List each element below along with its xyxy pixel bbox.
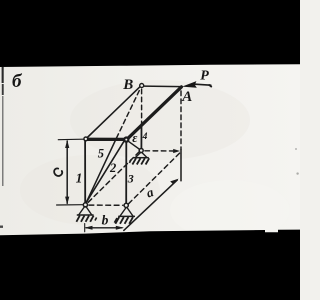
dimension c top arrow	[65, 140, 69, 148]
support at node C	[129, 152, 149, 164]
force P arrowhead	[182, 81, 197, 88]
dimension b tick	[84, 224, 86, 232]
svg-text:5: 5	[98, 147, 104, 161]
right edge specks	[295, 148, 297, 150]
top black bar	[0, 0, 300, 67]
node B	[140, 84, 144, 88]
dashed bottom front edge	[89, 204, 123, 206]
dimension a line	[124, 180, 177, 230]
node bottom-left joint	[83, 203, 87, 207]
dimension a arrowhead	[170, 179, 179, 185]
svg-text:2: 2	[109, 161, 116, 175]
dimension c bottom arrow	[65, 197, 69, 205]
dimension b line	[86, 227, 122, 229]
dashed back-right bottom edge BC to R	[129, 153, 180, 204]
support at bottom-left joint	[76, 206, 96, 222]
dashed rod bottom-left to C	[88, 152, 139, 202]
rod 2 hidden dashed part to B	[117, 89, 141, 138]
small arrow at end of dashed C edge	[173, 149, 180, 153]
rod 2 solid lower part	[86, 138, 116, 203]
member: top-right edge to A (thick)	[126, 87, 181, 140]
dimension c ticks	[58, 138, 83, 141]
dashed back-bottom edge C to R	[145, 150, 176, 152]
node top-left joint	[84, 137, 88, 141]
dimension b left arrow	[84, 226, 92, 230]
dimension c line	[66, 141, 68, 203]
wire: back-top edge B-A	[144, 85, 181, 88]
rod 4	[140, 124, 142, 148]
support at bottom-center joint	[114, 207, 135, 223]
rod from center joint to C	[128, 141, 139, 149]
dashed vertical below B	[141, 89, 143, 124]
svg-text:ε: ε	[132, 131, 138, 145]
svg-text:В: В	[122, 77, 133, 93]
dashed vertical below A	[180, 91, 182, 150]
left page-edge artifact	[2, 67, 4, 83]
label c	[54, 168, 62, 176]
node C joint	[139, 149, 143, 153]
dimension b right arrow	[116, 226, 124, 230]
svg-text:3: 3	[127, 171, 134, 185]
rod 3	[125, 142, 127, 204]
solid extension below corner R	[180, 150, 182, 181]
node top-center joint	[124, 138, 128, 142]
svg-text:1: 1	[76, 171, 83, 186]
svg-text:А: А	[181, 89, 192, 105]
node bottom-center joint	[124, 203, 128, 207]
svg-text:b: b	[102, 213, 109, 228]
member: front-top edge (thick)	[87, 138, 126, 141]
svg-text:б: б	[12, 71, 23, 92]
force P line	[195, 84, 211, 85]
rod 1	[84, 141, 86, 202]
svg-text:4: 4	[142, 132, 148, 142]
svg-text:Р: Р	[200, 68, 209, 83]
rod 5	[86, 139, 125, 203]
wire: top-left edge to B	[87, 87, 140, 138]
bottom black bar	[0, 230, 300, 300]
